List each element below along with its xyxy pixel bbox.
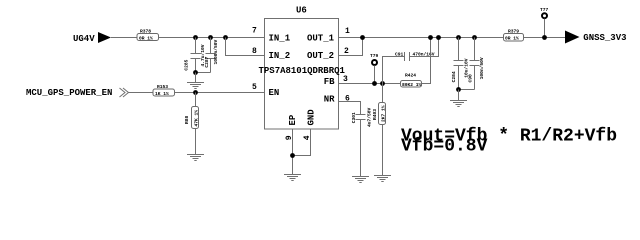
svg-text:C284: C284 <box>451 71 457 82</box>
svg-text:NR: NR <box>324 94 335 104</box>
svg-text:GNSS_3V3: GNSS_3V3 <box>583 33 626 43</box>
wire joining C285/C287 bottoms <box>196 72 211 74</box>
test point T79 <box>370 53 379 84</box>
svg-text:2: 2 <box>344 47 349 56</box>
junction at R88 <box>193 90 198 95</box>
svg-text:1000n/50V: 1000n/50V <box>213 39 219 64</box>
wire caps to ground <box>458 90 460 101</box>
wire IN_2 riser to pin 8 <box>226 38 265 56</box>
port chevron <box>120 88 129 97</box>
svg-text:T77: T77 <box>540 7 549 13</box>
wire OUT_2 riser <box>339 38 363 56</box>
wire EP pin down <box>292 129 294 175</box>
svg-text:C285: C285 <box>184 59 190 70</box>
svg-text:R424: R424 <box>405 73 416 79</box>
junction at C285 <box>193 35 198 40</box>
svg-text:OUT_2: OUT_2 <box>307 51 334 61</box>
junction OUT_2 <box>360 35 365 40</box>
svg-text:0R 1%: 0R 1% <box>505 36 519 42</box>
svg-text:C287: C287 <box>204 56 210 67</box>
svg-text:R88: R88 <box>184 115 190 124</box>
svg-text:GND: GND <box>307 109 317 126</box>
svg-text:EP: EP <box>288 114 298 125</box>
ground (IC) <box>284 175 301 181</box>
svg-text:100n/50V: 100n/50V <box>479 57 485 79</box>
wire OUT_1 rail <box>339 37 504 39</box>
svg-text:IN_1: IN_1 <box>269 34 291 44</box>
svg-text:OUT_1: OUT_1 <box>307 34 335 44</box>
svg-text:R403: R403 <box>372 109 378 120</box>
svg-text:C301: C301 <box>351 112 357 123</box>
svg-text:C91: C91 <box>395 52 404 58</box>
wire FB to R424 <box>339 83 401 85</box>
junction C284 <box>456 35 461 40</box>
svg-text:6: 6 <box>345 95 350 104</box>
svg-text:7: 7 <box>252 27 257 36</box>
capacitor C287 <box>204 38 219 73</box>
junction FB node <box>380 81 385 86</box>
svg-text:5: 5 <box>252 83 257 92</box>
svg-text:TPS7A8101QDRBRQ1: TPS7A8101QDRBRQ1 <box>259 66 346 76</box>
wire R378 to IC pin 7 <box>159 37 265 39</box>
svg-text:C90: C90 <box>468 74 474 83</box>
ground (R403) <box>374 176 391 182</box>
svg-text:47K 1%: 47K 1% <box>193 110 199 127</box>
wire NR pin to C301 <box>339 102 361 115</box>
svg-text:MCU_GPS_POWER_EN: MCU_GPS_POWER_EN <box>26 88 112 98</box>
svg-text:FB: FB <box>324 77 335 87</box>
ground (input caps) <box>187 83 204 89</box>
capacitor C91 <box>383 38 439 84</box>
input port arrow UG4V <box>98 32 111 43</box>
svg-text:2K7 1%: 2K7 1% <box>380 105 386 122</box>
resistor R378 <box>137 29 159 42</box>
svg-text:1K 1%: 1K 1% <box>155 91 169 97</box>
wire GND pin down and left <box>293 129 311 156</box>
svg-text:8: 8 <box>252 47 257 56</box>
junction EP/GND <box>290 153 295 158</box>
junction R424/rail <box>428 35 433 40</box>
ground (R88) <box>187 155 204 161</box>
wire R379 to output arrow <box>524 37 566 39</box>
svg-text:T79: T79 <box>370 53 379 59</box>
svg-text:Vfb=0.8V: Vfb=0.8V <box>401 136 488 156</box>
output port arrow GNSS_3V3 <box>565 31 580 44</box>
test point T77 <box>540 7 549 38</box>
ground (C301) <box>352 177 369 183</box>
junction caps bottom <box>193 70 198 75</box>
capacitor C285 <box>184 38 206 73</box>
resistor R88 <box>184 93 199 155</box>
junction T79/FB <box>372 81 377 86</box>
wire chevron to R153 <box>129 92 154 94</box>
wire caps to ground <box>195 73 197 83</box>
ground (output caps) <box>450 101 467 107</box>
capacitor C301 <box>351 107 373 176</box>
junction at IN_2 riser <box>223 35 228 40</box>
svg-text:470n/16V: 470n/16V <box>413 52 435 58</box>
svg-text:U6: U6 <box>296 6 307 16</box>
wire UG4V to R378 <box>111 37 137 39</box>
capacitor C90 <box>468 38 485 90</box>
junction output caps <box>456 87 461 92</box>
svg-text:80K2 1%: 80K2 1% <box>402 82 422 88</box>
capacitor C284 <box>451 38 470 90</box>
junction at C287 <box>208 35 213 40</box>
IC U6 TPS7A8101QDRBRQ1 <box>259 6 346 130</box>
resistor R424 <box>401 38 431 88</box>
junction C91/rail <box>436 35 441 40</box>
wire R153 to IC pin 5 <box>175 92 265 94</box>
svg-text:UG4V: UG4V <box>73 34 95 44</box>
junction T77 <box>542 35 547 40</box>
svg-text:IN_2: IN_2 <box>269 51 291 61</box>
svg-text:1: 1 <box>345 27 350 36</box>
junction C90 <box>472 35 477 40</box>
svg-text:3: 3 <box>343 75 348 84</box>
svg-text:4u7/50V: 4u7/50V <box>367 107 373 127</box>
svg-text:0R 1%: 0R 1% <box>139 36 153 42</box>
svg-text:EN: EN <box>269 88 280 98</box>
resistor R379 <box>504 29 524 42</box>
wire joining C284/C90 bottoms <box>459 89 475 91</box>
resistor R403 <box>372 84 386 176</box>
resistor R153 <box>153 84 175 97</box>
